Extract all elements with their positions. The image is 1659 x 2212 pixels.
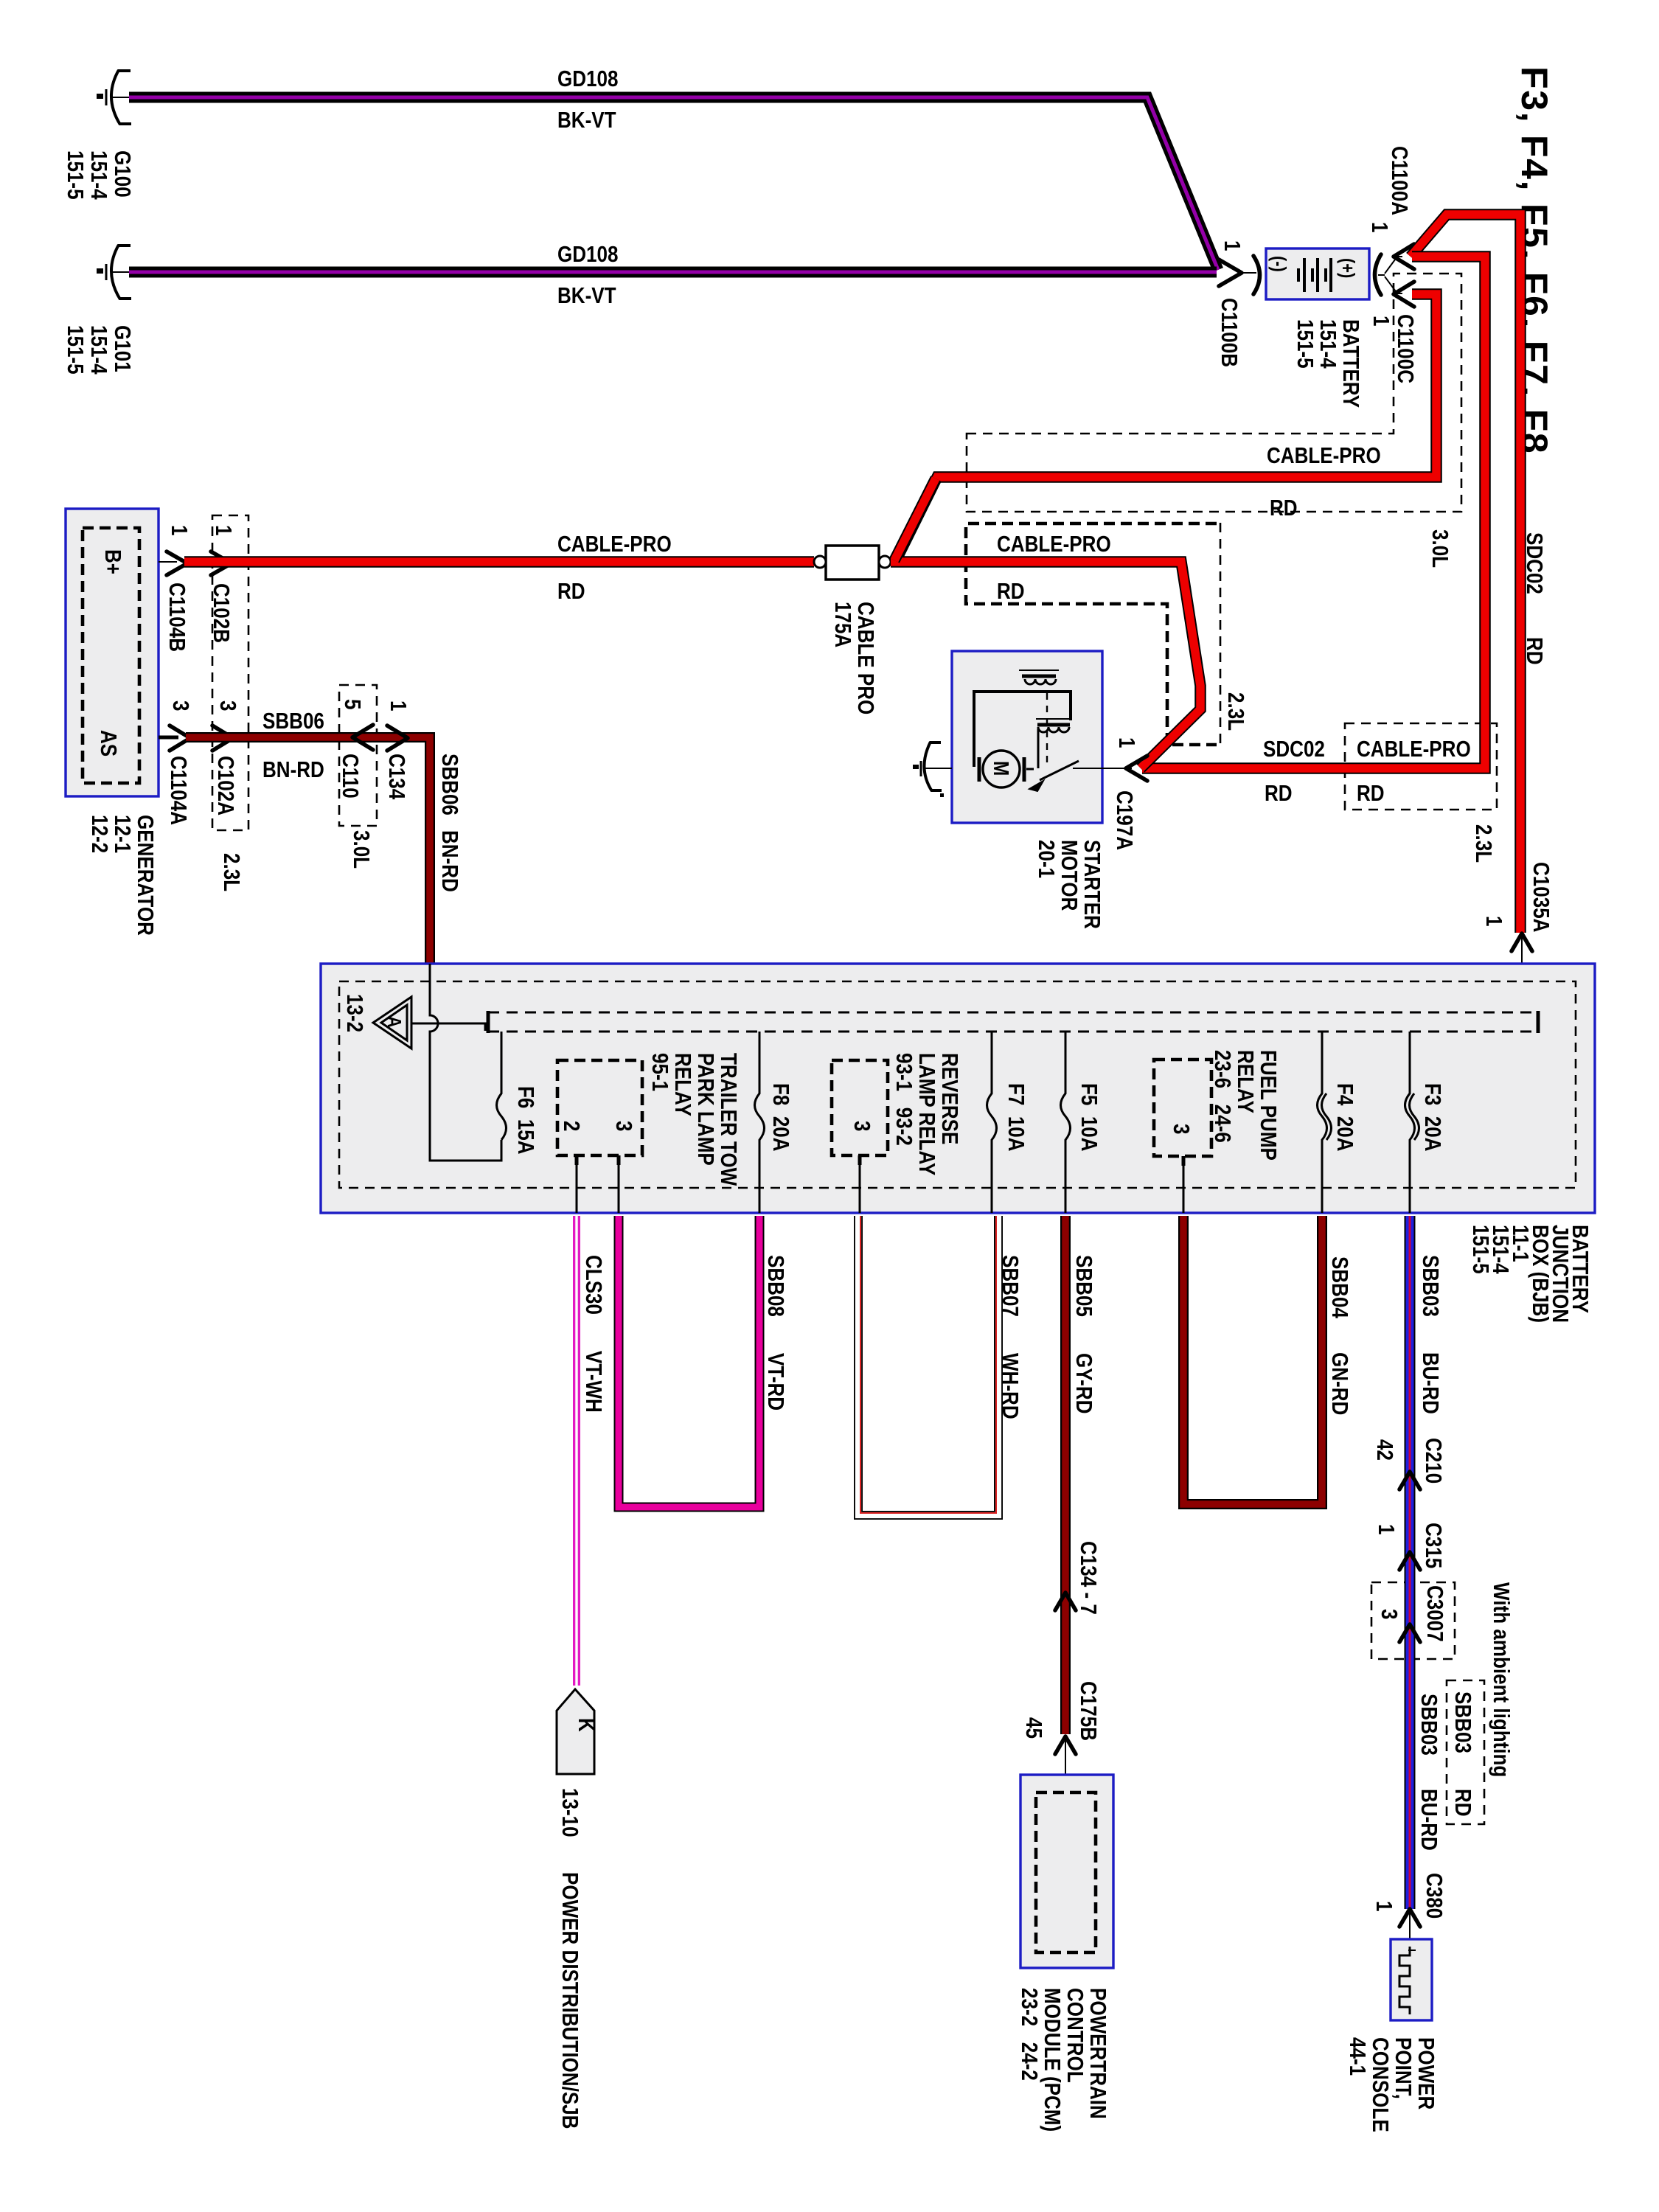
svg-text:151-4: 151-4 [86,325,111,375]
connector C1035A [1512,933,1532,951]
dashed region 2.3L variant (middle cable) [966,524,1217,745]
svg-text:1: 1 [1481,916,1506,927]
wire CABLE-PRO 3.0L (C1100C to junction) [894,294,1436,563]
svg-text:(+): (+) [1337,258,1358,278]
svg-text:SDC02: SDC02 [1263,737,1325,762]
svg-text:C1104A: C1104A [165,756,191,825]
connector C1100C [1394,282,1414,307]
ground (starter) [913,742,952,797]
motor M [983,751,1020,787]
wire SBB06 entry with hop [430,964,501,1161]
svg-text:LAMP RELAY: LAMP RELAY [914,1053,939,1175]
svg-text:RD: RD [1450,1789,1475,1817]
svg-text:2.3L: 2.3L [218,853,244,891]
connector C1104A [170,726,190,751]
svg-text:3: 3 [167,700,193,711]
wire B+ pin lead [159,561,177,563]
svg-text:RELAY: RELAY [1232,1050,1258,1113]
svg-text:C134 - 7: C134 - 7 [1075,1541,1101,1615]
svg-text:CABLE PRO: CABLE PRO [852,602,878,714]
svg-text:RD: RD [997,579,1025,605]
svg-text:C210: C210 [1420,1438,1446,1484]
svg-text:RD: RD [1357,781,1385,807]
svg-text:REVERSE: REVERSE [936,1053,962,1144]
dashed box SDC02/CABLE-PRO (2.3L near C197A) [1345,723,1497,810]
wire branch (junction up to 3.0L cable) [894,479,936,560]
connector C1104B [167,552,187,575]
connector C197A [1102,768,1132,769]
wire GD108 BK-VT (G101 to battery) [129,267,1217,278]
svg-text:RELAY: RELAY [669,1053,695,1116]
svg-text:TRAILER TOW: TRAILER TOW [715,1053,741,1186]
svg-text:F4 20A: F4 20A [1332,1083,1357,1152]
svg-text:CABLE-PRO: CABLE-PRO [997,532,1111,557]
node battery (+) fork [1375,254,1382,295]
svg-text:C175B: C175B [1075,1681,1101,1741]
starter motor STARTER MOTOR box [952,651,1102,823]
svg-text:3.0L: 3.0L [348,830,374,869]
svg-text:93-1 93-2: 93-1 93-2 [891,1053,917,1146]
svg-text:POWER DISTRIBUTION/SJB: POWER DISTRIBUTION/SJB [557,1872,582,2129]
svg-text:C1100A: C1100A [1386,146,1412,215]
svg-text:BK-VT: BK-VT [557,108,616,133]
svg-text:3: 3 [611,1121,636,1131]
svg-text:1: 1 [1366,222,1392,233]
svg-text:M: M [990,761,1013,776]
svg-text:1: 1 [1373,1524,1399,1535]
svg-text:GD108: GD108 [557,242,619,268]
wire SDC02 RD (C1100A to C1035A) [1411,215,1520,933]
wire SBB05 GY-RD (F5 to PCM) [1060,1216,1071,1734]
connector C1100B [1219,260,1242,286]
svg-text:C102B: C102B [208,583,234,643]
svg-text:151-5: 151-5 [62,325,88,375]
fuse F7 10A [987,1032,997,1213]
dashed connector box C102 [212,515,248,830]
svg-text:SBB07: SBB07 [997,1255,1023,1317]
wire (triangle A to bus) [411,1023,485,1031]
svg-text:B+: B+ [100,549,125,574]
svg-text:CLS30: CLS30 [580,1255,606,1315]
svg-text:GD108: GD108 [557,66,619,92]
dashed connector box C3007 [1371,1582,1455,1659]
svg-text:42: 42 [1371,1439,1397,1461]
svg-text:SBB03: SBB03 [1417,1255,1443,1317]
svg-text:C134: C134 [383,754,409,799]
svg-text:SBB08: SBB08 [762,1255,788,1317]
svg-text:BN-RD: BN-RD [262,757,324,783]
svg-text:F7 10A: F7 10A [1003,1083,1029,1152]
wire SBB03 BU-RD (F3 down) [1405,1216,1416,1909]
wire (coil1 to box loop) [974,692,1071,767]
relay REVERSE LAMP RELAY [832,1060,888,1155]
svg-text:3: 3 [1376,1609,1402,1619]
svg-text:SBB04: SBB04 [1326,1256,1352,1318]
resistor (power point element) [1399,1947,1410,2014]
svg-text:C102A: C102A [212,756,238,815]
svg-text:RD: RD [1521,637,1547,665]
svg-text:C1104B: C1104B [164,582,189,652]
node K flag [557,1689,594,1774]
svg-text:F8 20A: F8 20A [768,1083,793,1152]
svg-text:SBB06: SBB06 [437,754,462,815]
svg-text:CONTROL: CONTROL [1062,1988,1088,2083]
node A triangle 13-2 [373,997,411,1048]
box PCM POWERTRAIN CONTROL MODULE [1020,1775,1113,1968]
battery BATTERY [1266,248,1369,299]
svg-text:SBB05: SBB05 [1071,1255,1096,1317]
ground G101 [97,245,131,299]
fuse F3 20A (double) [1405,1032,1415,1213]
dashed edge (2.3L region right) [1220,523,1222,743]
svg-text:23-6 24-6: 23-6 24-6 [1209,1050,1235,1143]
box BJB BATTERY JUNCTION BOX [321,964,1595,1213]
fuse F8 20A [755,1032,765,1213]
svg-text:(-): (-) [1268,256,1290,272]
connector C134-7 [1055,1593,1076,1610]
svg-text:151-4: 151-4 [1315,319,1340,369]
svg-text:GENERATOR: GENERATOR [132,815,158,936]
svg-text:MOTOR: MOTOR [1056,840,1082,911]
svg-text:BU-RD: BU-RD [1417,1352,1443,1414]
svg-text:With ambient lighting: With ambient lighting [1488,1582,1514,1777]
svg-text:RD: RD [1270,495,1298,521]
switch blade [1026,761,1079,780]
solenoid coil 1 [1019,669,1059,671]
junction CABLE PRO 175A [814,546,891,580]
svg-text:GN-RD: GN-RD [1326,1352,1352,1415]
svg-text:45: 45 [1020,1717,1046,1739]
svg-text:2.3L: 2.3L [1470,824,1496,863]
svg-text:1: 1 [1113,737,1139,748]
connector C102A [212,726,233,751]
svg-text:G101: G101 [109,325,135,372]
svg-text:1: 1 [210,525,236,536]
svg-text:C380: C380 [1421,1873,1447,1919]
relay TRAILER TOW PARK LAMP RELAY [557,1060,642,1155]
svg-text:2: 2 [558,1121,584,1131]
svg-text:3.0L: 3.0L [1427,529,1453,568]
svg-text:BU-RD: BU-RD [1416,1789,1441,1851]
svg-text:151-5: 151-5 [1292,319,1318,369]
svg-text:GY-RD: GY-RD [1071,1353,1096,1413]
svg-text:SBB03: SBB03 [1416,1694,1441,1756]
connector C210 pin 42 [1399,1472,1420,1489]
svg-text:K: K [573,1718,599,1732]
svg-text:BATTERY: BATTERY [1338,319,1363,408]
box POWER POINT CONSOLE [1391,1939,1432,2020]
svg-text:WH-RD: WH-RD [997,1353,1023,1419]
fuse F6 15A [497,1032,507,1140]
svg-text:VT-RD: VT-RD [762,1353,788,1411]
svg-text:C1035A: C1035A [1528,862,1554,932]
fuse F4 20A (double) [1318,1032,1327,1213]
wire AS pin lead [159,736,178,740]
svg-text:CABLE-PRO: CABLE-PRO [557,532,672,557]
svg-text:A: A [383,1016,405,1028]
svg-text:VT-WH: VT-WH [580,1351,606,1413]
wire CABLE-PRO 2.3L branch (C1100A to C197A) [1142,257,1485,768]
svg-text:23-2 24-2: 23-2 24-2 [1016,1988,1042,2081]
wire SBB04 GN-RD (fuel pump relay loop to F4) [1183,1216,1322,1504]
svg-text:20-1: 20-1 [1033,840,1059,878]
connector C175B pin 45 [1055,1736,1076,1754]
dashed box SBB03 RD (ambient option) [1447,1680,1484,1824]
svg-text:MODULE (PCM): MODULE (PCM) [1039,1988,1065,2132]
svg-text:12-2: 12-2 [86,815,112,853]
svg-text:FUEL PUMP: FUEL PUMP [1255,1050,1281,1161]
svg-text:F3 20A: F3 20A [1419,1083,1445,1152]
svg-text:SBB06: SBB06 [262,709,324,734]
svg-text:1: 1 [1368,316,1394,327]
svg-text:SBB03: SBB03 [1450,1691,1475,1753]
svg-text:PARK LAMP: PARK LAMP [692,1053,718,1166]
svg-text:1: 1 [385,700,411,712]
svg-text:C197A: C197A [1111,790,1137,850]
wire SBB06 BN-RD (AS to BJB) [186,737,430,964]
wire CABLE-PRO RD (B+ to junction 175A) [184,556,814,568]
svg-text:RD: RD [1265,781,1293,807]
svg-text:F6 15A: F6 15A [512,1086,538,1155]
svg-text:13-10: 13-10 [557,1788,582,1837]
connector C134 [387,726,408,751]
ground G100 [97,70,131,125]
svg-text:175A: 175A [829,602,855,647]
connector C380 pin 1 [1399,1909,1420,1927]
connector C110 [352,725,373,750]
bus strip (dashed) [488,1012,1535,1014]
svg-text:F5 10A: F5 10A [1076,1083,1102,1152]
svg-text:151-5: 151-5 [1467,1225,1493,1274]
svg-text:C1100B: C1100B [1216,298,1242,367]
svg-text:12-1: 12-1 [109,815,135,853]
svg-text:44-1: 44-1 [1344,2037,1370,2076]
fuse F5 10A [1061,1032,1071,1213]
svg-text:1: 1 [1371,1901,1397,1912]
svg-text:1: 1 [166,525,192,536]
connector C3007 pin 3 [1399,1624,1420,1642]
svg-text:C110: C110 [337,754,363,799]
svg-text:SDC02: SDC02 [1521,532,1547,594]
solenoid coil 2 [1036,718,1071,720]
svg-text:RD: RD [557,579,585,605]
dashed connector box C110 [339,685,377,826]
svg-text:1: 1 [1219,240,1245,251]
svg-text:AS: AS [95,730,121,757]
svg-text:POWERTRAIN: POWERTRAIN [1085,1988,1110,2119]
svg-text:POWER: POWER [1413,2037,1439,2110]
svg-text:BN-RD: BN-RD [437,830,462,892]
svg-text:151-4: 151-4 [86,150,111,200]
svg-text:3: 3 [1168,1124,1194,1134]
svg-text:CABLE-PRO: CABLE-PRO [1267,443,1381,469]
svg-text:3: 3 [849,1121,874,1131]
svg-text:2.3L: 2.3L [1222,692,1248,731]
connector C315 pin 1 [1399,1552,1420,1570]
wire SBB07 WH-RD (reverse relay loop to F7) [858,1216,998,1515]
plunger dashed link [1046,693,1048,764]
svg-text:C315: C315 [1420,1523,1446,1568]
wire GD108 BK-VT (G100 to battery, with diagonal) [129,97,1218,270]
svg-text:CONSOLE: CONSOLE [1367,2037,1393,2132]
svg-text:95-1: 95-1 [647,1053,672,1091]
generator GENERATOR [66,509,159,796]
dashed region 3.0L variant (battery/cable area) [967,274,1461,512]
svg-text:G100: G100 [109,150,135,198]
connector C1100A [1394,244,1414,269]
svg-text:13-2: 13-2 [341,994,367,1032]
svg-text:C1100C: C1100C [1392,314,1418,383]
inner dashed box (BJB) [339,981,1576,1188]
svg-text:CABLE-PRO: CABLE-PRO [1357,737,1471,762]
connector C102B [211,552,232,575]
svg-text:STARTER: STARTER [1079,840,1105,929]
wire CLS30 VT-WH (pin 2 to K) [573,1216,580,1686]
relay FUEL PUMP RELAY [1154,1060,1211,1156]
svg-text:151-5: 151-5 [62,150,88,200]
svg-text:C3007: C3007 [1422,1585,1447,1642]
svg-text:3: 3 [215,700,240,711]
svg-text:5: 5 [339,699,365,710]
svg-text:POINT,: POINT, [1390,2037,1416,2099]
wire SBB08 VT-RD (pin 3 loop to F8) [619,1216,759,1507]
wire CABLE-PRO RD (junction to starter C197A) [891,562,1200,768]
svg-text:BK-VT: BK-VT [557,283,616,309]
